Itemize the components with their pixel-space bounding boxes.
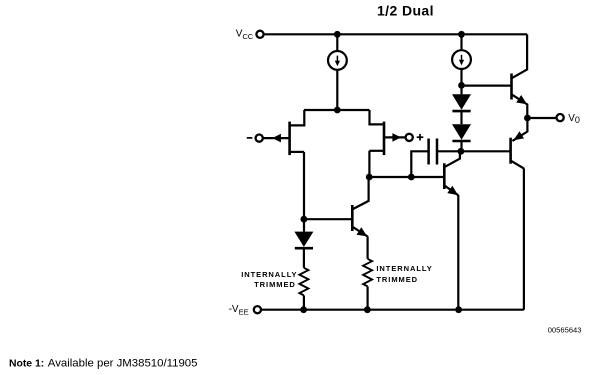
node R2 VEE junction	[364, 306, 371, 313]
wire D2 cathode to node C	[460, 141, 462, 151]
capacitor C1 right lead	[437, 150, 461, 152]
terminal -IN	[256, 135, 263, 142]
diode D1	[452, 94, 471, 111]
node C junction	[458, 148, 465, 155]
transistor Q4 emitter arrow	[447, 186, 458, 195]
label INTERNALLY TRIMMED left	[241, 270, 297, 289]
node Q4 emitter VEE junction	[455, 306, 462, 313]
transistor Q1	[290, 110, 305, 155]
svg-text:INTERNALLY: INTERNALLY	[241, 270, 297, 279]
wire current source I2 top lead	[460, 34, 462, 50]
node R1 VEE junction	[300, 306, 307, 313]
svg-text:00565643: 00565643	[548, 326, 582, 335]
capacitor C1 left lead	[411, 151, 428, 177]
svg-text:Note 1:: Note 1:	[9, 358, 44, 369]
wire R2 to VEE rail	[367, 286, 369, 309]
wire Q4 emitter to VEE rail	[457, 195, 459, 310]
plus input label	[417, 134, 424, 141]
resistor R1	[299, 268, 308, 296]
node top-right junction	[458, 31, 465, 38]
node output junction	[524, 115, 531, 122]
transistor Q4	[444, 151, 460, 195]
wire node C to Q6 base	[461, 150, 511, 152]
transistor Q1 base arrow	[272, 134, 281, 143]
wire differential pair tail rail	[304, 109, 370, 111]
transistor Q2 base arrow	[392, 133, 401, 142]
node A junction	[366, 174, 373, 181]
node top-left junction	[334, 31, 341, 38]
wire Q3 base	[304, 218, 352, 220]
terminal VCC	[256, 31, 263, 38]
node B junction capacitor tap	[408, 174, 415, 181]
diode D2	[452, 124, 471, 141]
svg-text:TRIMMED: TRIMMED	[254, 280, 296, 289]
resistor R2	[363, 259, 372, 287]
transistor Q3 emitter arrow	[357, 227, 368, 236]
wire VCC top rail	[263, 33, 527, 35]
wire VEE bottom rail	[261, 309, 524, 311]
wire Q1 collector down to diode D3	[303, 152, 305, 232]
current source I1	[328, 51, 347, 70]
svg-text:VCC: VCC	[236, 28, 254, 41]
current source I2	[452, 50, 471, 69]
wire diode stack top to Q5 base	[462, 84, 512, 86]
transistor Q6	[511, 118, 528, 169]
svg-text:-VEE: -VEE	[229, 304, 249, 317]
svg-text:Available per JM38510/11905: Available per JM38510/11905	[48, 357, 198, 369]
transistor Q5	[512, 34, 528, 118]
svg-text:TRIMMED: TRIMMED	[376, 275, 418, 284]
wire current source I2 bottom lead	[460, 69, 462, 85]
node tail junction	[334, 107, 341, 114]
wire node A to Q4 base	[369, 176, 444, 178]
terminal V0	[557, 114, 564, 121]
wire D1 cathode to D2 anode	[460, 111, 462, 124]
node diode stack top junction	[458, 82, 465, 89]
svg-text:1/2 Dual: 1/2 Dual	[377, 2, 434, 18]
wire output node to terminal	[527, 117, 556, 119]
diode D3	[294, 232, 313, 249]
wire current source I1 bottom lead	[336, 70, 338, 110]
transistor Q3	[352, 205, 367, 237]
wire node A down to Q3 collector	[352, 177, 368, 209]
capacitor C1	[429, 139, 437, 165]
wire Q3 emitter to resistor R2	[367, 236, 369, 258]
node Q3 base junction	[301, 216, 308, 223]
transistor Q1 base wire	[263, 137, 290, 139]
wire D3 cathode to resistor R1	[303, 248, 305, 268]
wire Q2 collector down to node A	[368, 151, 370, 177]
transistor Q5 emitter arrow	[516, 95, 527, 104]
svg-text:V0: V0	[568, 113, 580, 125]
label INTERNALLY TRIMMED right	[376, 264, 432, 284]
transistor Q6 emitter arrow	[513, 131, 524, 140]
minus input label	[247, 137, 253, 139]
wire R1 to VEE rail	[303, 295, 305, 309]
wire Q6 collector to VEE rail	[523, 168, 525, 309]
terminal +IN	[406, 134, 413, 141]
transistor Q2 base wire	[384, 136, 406, 138]
terminal VEE	[254, 306, 261, 313]
transistor Q2	[369, 110, 384, 155]
wire current source I1 top lead	[336, 34, 338, 51]
svg-text:INTERNALLY: INTERNALLY	[376, 264, 432, 273]
wire diode D1 anode lead	[460, 85, 462, 94]
